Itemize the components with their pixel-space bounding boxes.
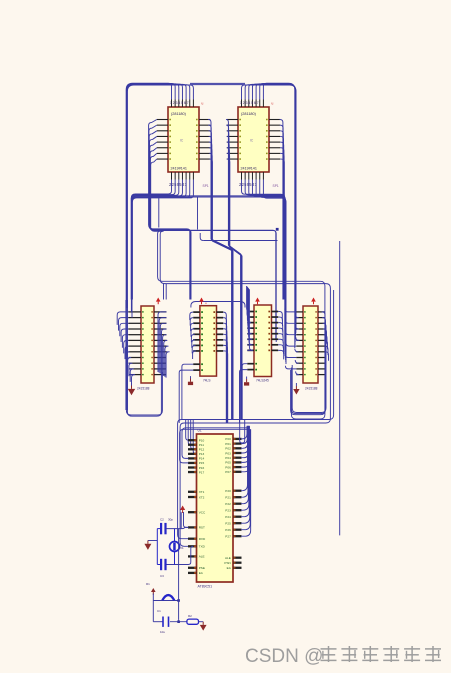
svg-text:P05: P05 <box>225 461 231 465</box>
svg-text:ALE: ALE <box>199 555 205 559</box>
svg-text:ALE: ALE <box>225 556 231 560</box>
svg-text:P21: P21 <box>225 496 231 500</box>
svg-text:P14: P14 <box>199 457 205 461</box>
svg-text:P16: P16 <box>199 466 205 470</box>
svg-text:2419#141: 2419#141 <box>171 166 187 170</box>
svg-text:PSN: PSN <box>224 561 230 565</box>
svg-text:P25: P25 <box>225 522 231 526</box>
svg-text:u: u <box>272 102 274 106</box>
svg-text:(281180): (281180) <box>171 112 187 116</box>
svg-text:P23: P23 <box>225 509 231 513</box>
svg-text:2415188: 2415188 <box>137 387 150 391</box>
svg-text:P02: P02 <box>225 447 231 451</box>
svg-text:X1: X1 <box>180 546 184 550</box>
svg-text:P03: P03 <box>225 451 231 455</box>
svg-text:P20: P20 <box>225 489 231 493</box>
svg-text:1234567: 1234567 <box>240 101 260 105</box>
svg-text:P27: P27 <box>225 535 231 539</box>
svg-text:RXD: RXD <box>199 537 206 541</box>
svg-text:P24: P24 <box>225 515 231 519</box>
svg-text:P26: P26 <box>225 528 231 532</box>
svg-text:2415188: 2415188 <box>305 387 318 391</box>
svg-text:RST: RST <box>199 526 205 530</box>
svg-text:P15: P15 <box>199 461 205 465</box>
svg-text:P06: P06 <box>225 465 231 469</box>
svg-text:(281180): (281180) <box>241 112 257 116</box>
svg-text:P07: P07 <box>225 470 231 474</box>
svg-text:SP1: SP1 <box>203 184 209 188</box>
svg-text:P04: P04 <box>225 456 231 460</box>
svg-text:C3: C3 <box>160 574 164 578</box>
svg-text:P13: P13 <box>199 452 205 456</box>
svg-text:P22: P22 <box>225 502 231 506</box>
svg-text:SP1: SP1 <box>273 184 279 188</box>
svg-text:1234567: 1234567 <box>170 101 190 105</box>
svg-text:P10: P10 <box>199 439 205 443</box>
svg-text:2419#141: 2419#141 <box>241 166 257 170</box>
svg-text:P00: P00 <box>225 437 231 441</box>
svg-text:R1: R1 <box>146 582 150 586</box>
svg-text:P01: P01 <box>225 442 231 446</box>
svg-text:P11: P11 <box>199 443 205 447</box>
svg-text:PSE: PSE <box>199 566 205 570</box>
svg-text:TXD: TXD <box>199 545 206 549</box>
svg-text:10u: 10u <box>160 630 165 634</box>
svg-text:u: u <box>202 102 204 106</box>
svg-text:C2: C2 <box>160 518 164 522</box>
svg-text:XT1: XT1 <box>199 490 205 494</box>
svg-text:C1: C1 <box>157 609 161 613</box>
svg-text:P12: P12 <box>199 448 205 452</box>
svg-text:CSDN @: CSDN @ <box>245 646 323 667</box>
svg-text:VCC: VCC <box>199 511 206 515</box>
svg-text:74LS245: 74LS245 <box>256 379 269 383</box>
svg-text:XT2: XT2 <box>199 495 205 499</box>
svg-text:AT89C51: AT89C51 <box>198 585 213 589</box>
svg-text:P17: P17 <box>199 470 205 474</box>
svg-text:30p: 30p <box>168 518 173 522</box>
svg-text:74LS: 74LS <box>203 379 210 383</box>
svg-text:R2: R2 <box>188 614 192 618</box>
